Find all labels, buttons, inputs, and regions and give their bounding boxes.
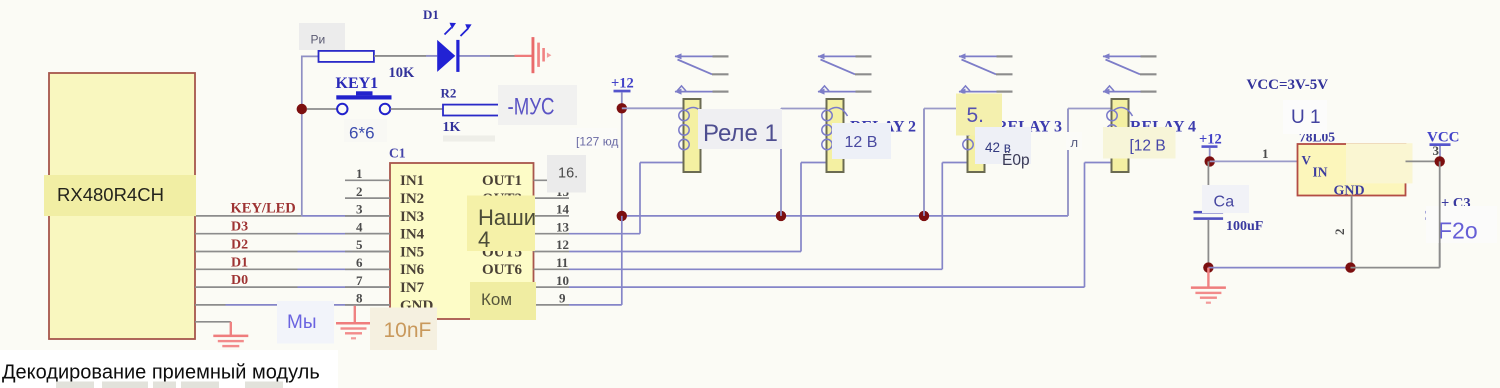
relay K4 contact — [1103, 53, 1157, 94]
svg-text:Мы: Мы — [287, 312, 316, 333]
chip left pin stubs 1-8 — [345, 180, 390, 305]
svg-text:л: л — [1071, 135, 1079, 150]
junction dot relay1 +12 — [617, 103, 627, 113]
svg-text:IN1: IN1 — [400, 173, 424, 189]
svg-text:D0: D0 — [231, 273, 248, 288]
wire bus riser to relay2 coil — [781, 109, 827, 216]
wire D0 — [195, 286, 390, 288]
ground chip pin8 — [336, 322, 371, 339]
ghost text remnants — [56, 382, 283, 388]
wire D2 — [195, 251, 390, 253]
svg-text:VCC: VCC — [1427, 129, 1460, 145]
overlay patch Ком — [470, 282, 536, 320]
svg-text:Ком: Ком — [481, 290, 512, 309]
wire LED to power return — [460, 55, 532, 57]
resistor R2 1K — [443, 105, 499, 116]
junction dot bus relay2 — [776, 211, 786, 221]
chip left pin numbers — [356, 166, 363, 306]
wire U1 pin3 — [1406, 160, 1440, 162]
resistor R1 10K — [319, 51, 374, 62]
svg-text:GND: GND — [1334, 184, 1365, 199]
svg-text:8: 8 — [356, 291, 363, 306]
svg-text:Ри: Ри — [311, 33, 326, 47]
LED D1 — [437, 23, 471, 72]
overlay patch 16. — [547, 155, 586, 193]
wire D1 — [195, 268, 390, 270]
wire module GND to pin8 — [195, 304, 390, 306]
wire bus riser to relay3 coil — [924, 109, 968, 216]
svg-text:1: 1 — [356, 166, 363, 181]
wire key node to button — [307, 108, 337, 110]
svg-text:R2: R2 — [441, 86, 457, 101]
overlay patch 12 В — [832, 123, 891, 159]
svg-text:IN: IN — [1313, 165, 1328, 180]
svg-text:U 1: U 1 — [1291, 107, 1321, 128]
power port +12 (U1 input) — [1199, 132, 1222, 162]
svg-text:D1: D1 — [423, 7, 439, 22]
wire chip GND pin8 to ground — [354, 306, 356, 323]
overlay patch л — [1066, 132, 1082, 150]
overlay patch 10nF — [370, 308, 437, 351]
svg-text:C1: C1 — [389, 146, 406, 161]
svg-text:IN4: IN4 — [400, 227, 425, 243]
overlay patch Ри — [299, 23, 345, 50]
caption band — [0, 350, 338, 388]
svg-text:11: 11 — [556, 255, 568, 270]
svg-text:Ё0р: Ё0р — [1002, 152, 1030, 169]
svg-text:VCC=3V-5V: VCC=3V-5V — [1247, 77, 1329, 93]
svg-text:10nF: 10nF — [384, 319, 432, 342]
relay K3 contact — [959, 53, 1013, 94]
relay K2 contact — [818, 53, 872, 94]
wire KEY/LED — [195, 215, 390, 217]
svg-text:OUT6: OUT6 — [482, 262, 523, 278]
overlay patch Наши 4 — [467, 196, 536, 253]
svg-text:6*6: 6*6 — [349, 124, 375, 143]
wire gnd-left to U1 gnd — [1208, 267, 1350, 269]
wire over F2o patch — [1439, 206, 1441, 268]
overlay patch 5. — [956, 94, 1002, 136]
svg-text:F2o: F2o — [1438, 218, 1478, 244]
relay K2 coil — [822, 99, 848, 172]
overlay patch Са — [1202, 185, 1249, 213]
svg-text:14: 14 — [556, 202, 570, 217]
wire pin9 to +12 bus — [569, 216, 622, 305]
wire module bottom to ground — [195, 322, 231, 336]
chip right pin stubs 16-9 — [534, 180, 570, 305]
wire R1 to LED D1 — [374, 55, 437, 57]
svg-text:12 В: 12 В — [845, 134, 878, 151]
relay K1 contact — [675, 53, 729, 94]
wire bus riser to relay4 coil — [1068, 109, 1112, 216]
chip pin names OUT1-OUT6 — [482, 173, 523, 278]
wire R1 left to KEY/LED node — [302, 56, 319, 216]
U1 translation patch — [1346, 143, 1413, 183]
svg-text:[12 В: [12 В — [1130, 138, 1166, 155]
svg-text:OUT1: OUT1 — [482, 173, 522, 189]
U1 pin name VIN — [1302, 153, 1328, 180]
relay K3 coil — [963, 99, 989, 172]
svg-text:6: 6 — [356, 255, 363, 270]
wire U1 pin1 — [1210, 160, 1298, 162]
svg-text:IN5: IN5 — [400, 244, 424, 260]
svg-text:D2: D2 — [231, 238, 248, 253]
overlay patch [12 В — [1103, 127, 1176, 159]
chip right pin numbers — [556, 166, 571, 306]
svg-text:RX480R4CH: RX480R4CH — [57, 184, 164, 205]
wire OUT pin12 to relay2 coil — [569, 163, 827, 252]
svg-text:12: 12 — [556, 237, 569, 252]
overlay patch 42 в / Ё0р — [975, 127, 1031, 169]
wire D3 — [195, 233, 390, 235]
regulator U1 body — [1298, 144, 1406, 196]
svg-text:D3: D3 — [231, 220, 248, 235]
svg-text:IN6: IN6 — [400, 262, 425, 278]
svg-text:+12: +12 — [1199, 132, 1222, 148]
relay K4 coil — [1107, 99, 1133, 172]
overlay patch U 1 — [1283, 100, 1327, 134]
junction dot bus relay3 — [919, 211, 929, 221]
svg-text:IN7: IN7 — [400, 280, 425, 296]
wire OUT pin10 to relay4 coil — [569, 163, 1112, 288]
junction dot U1 gnd-center — [1345, 262, 1355, 272]
svg-text:2: 2 — [1332, 229, 1347, 236]
overlay patch Реле 1 — [698, 109, 782, 149]
wire OUT pin11 to relay3 coil — [569, 163, 968, 270]
power port VCC — [1427, 129, 1460, 161]
power port +12 (relays) — [611, 76, 634, 216]
svg-text:16.: 16. — [558, 166, 578, 182]
svg-text:10: 10 — [556, 273, 569, 288]
wire button to R2 — [391, 108, 444, 110]
capacitor C3 — [1351, 161, 1455, 267]
svg-text:-МУС: -МУС — [508, 94, 555, 121]
svg-text:V: V — [1302, 153, 1312, 168]
svg-text:IN2: IN2 — [400, 191, 424, 207]
junction dot U1 output — [1435, 156, 1445, 166]
junction dot key node — [297, 104, 307, 114]
overlay patch 6*6 — [344, 119, 387, 143]
svg-text:7: 7 — [356, 273, 363, 288]
overlay patch [127 юд — [570, 128, 618, 149]
chip U-C1 body — [390, 163, 534, 319]
svg-text:4: 4 — [356, 219, 363, 234]
svg-text:Реле 1: Реле 1 — [703, 120, 778, 147]
svg-text:4: 4 — [478, 227, 490, 252]
pushbutton KEY1 — [336, 91, 391, 114]
junction dot U1 gnd-left — [1203, 262, 1213, 272]
svg-text:13: 13 — [556, 219, 570, 234]
svg-text:1: 1 — [1262, 146, 1269, 161]
wire +12 to relay1 coil — [622, 107, 684, 109]
svg-text:KEY1: KEY1 — [336, 75, 379, 92]
ground module — [213, 335, 248, 353]
wire OUT pin13 to relay1 coil — [569, 163, 684, 234]
wire U1 pin2 — [1351, 196, 1353, 268]
svg-text:100uF: 100uF — [1226, 219, 1263, 234]
svg-text:[127 юд: [127 юд — [576, 135, 618, 149]
svg-text:2: 2 — [356, 184, 363, 199]
svg-text:KEY/LED: KEY/LED — [231, 201, 296, 217]
module RX480R4CH — [49, 73, 195, 339]
relay K1 coil — [679, 99, 705, 172]
ground U1 area — [1191, 268, 1226, 304]
+12 bus wire — [622, 215, 1068, 217]
svg-text:10K: 10K — [389, 65, 416, 81]
svg-text:5.: 5. — [967, 104, 985, 127]
overlay patch -МУС — [498, 85, 577, 125]
chip pin names IN1-IN7 GND — [400, 173, 434, 314]
svg-text:IN3: IN3 — [400, 209, 424, 225]
junction dot U1 input — [1205, 156, 1215, 166]
capacitor C2 100uF — [1194, 161, 1224, 267]
module label overlay RX480R4CH — [44, 175, 196, 216]
power return symbol (red) — [532, 37, 552, 73]
svg-text:5: 5 — [356, 237, 363, 252]
svg-text:D1: D1 — [231, 255, 248, 270]
svg-text:1K: 1K — [443, 120, 461, 135]
junction dot bus/pin9 — [617, 211, 627, 221]
overlay patch F2o — [1426, 206, 1497, 244]
svg-text:3: 3 — [356, 202, 363, 217]
svg-text:+12: +12 — [611, 76, 634, 92]
svg-text:Са: Са — [1214, 194, 1235, 211]
svg-text:9: 9 — [559, 291, 566, 306]
overlay patch Мы — [277, 301, 334, 344]
svg-text:Декодирование приемный модуль: Декодирование приемный модуль — [2, 362, 320, 384]
ghost remnant under R2 — [443, 136, 495, 142]
